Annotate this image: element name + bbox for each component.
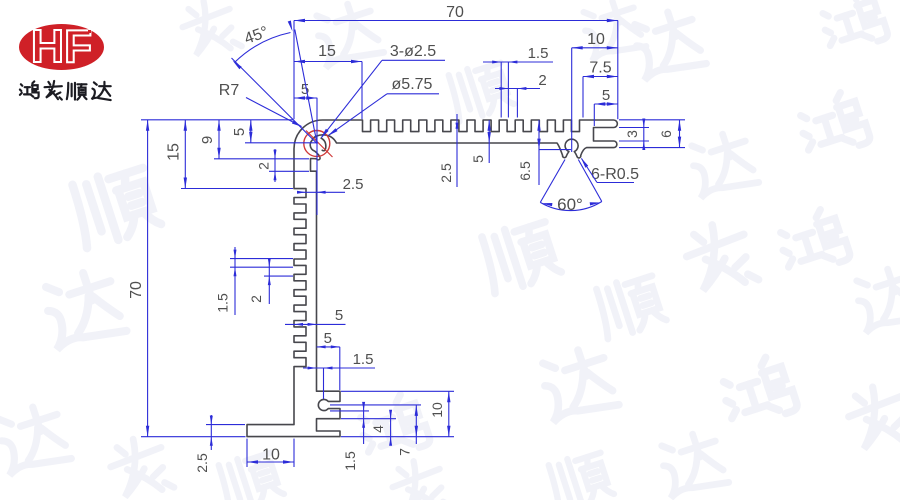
o5.75 leader	[329, 94, 388, 136]
svg-text:5: 5	[324, 330, 332, 347]
ext y424.6	[206, 424, 245, 426]
red 45deg centerline	[306, 131, 333, 158]
ext y142.8	[245, 142, 318, 144]
45deg arc	[235, 33, 291, 63]
svg-text:7.5: 7.5	[589, 60, 611, 77]
dim 6 line	[679, 120, 681, 148]
o5.75 underline	[387, 93, 439, 95]
svg-text:1.5: 1.5	[528, 45, 549, 62]
dim 70 left line	[147, 120, 149, 437]
ext x594	[593, 104, 595, 126]
dim 4 line	[390, 411, 392, 444]
svg-text:10: 10	[262, 447, 280, 464]
dim 1.5 br line	[363, 404, 365, 444]
ext y436.7 right	[341, 436, 454, 438]
R7 leader	[246, 98, 302, 127]
ext x517	[516, 89, 518, 118]
6-R0.5 underline	[597, 182, 634, 184]
ext y258.6	[230, 258, 293, 260]
60deg arc	[540, 202, 602, 211]
svg-text:1.5: 1.5	[215, 293, 231, 313]
3-o2.5 underline	[382, 59, 445, 61]
svg-text:45°: 45°	[242, 24, 271, 48]
ext y418.7	[341, 418, 396, 420]
ext y171.3	[269, 170, 309, 172]
dim 7 line	[415, 405, 417, 444]
ext y436.7 left	[141, 436, 246, 438]
45 line b	[295, 30, 317, 144]
dim 1.5 ho line	[303, 367, 375, 369]
svg-text:HF: HF	[31, 20, 92, 72]
dim 5 left line	[250, 120, 252, 143]
svg-text:5: 5	[335, 307, 343, 324]
ext y147.6 r	[619, 147, 685, 149]
ext y267.2	[230, 266, 293, 268]
keyhole upper lip inner edge	[321, 138, 326, 151]
svg-text:6-R0.5: 6-R0.5	[591, 166, 639, 183]
svg-text:R7: R7	[219, 82, 240, 99]
dim 5 tab line	[317, 346, 340, 348]
ext y410.9	[330, 410, 369, 412]
svg-text:10: 10	[429, 402, 445, 418]
dim 5 tr line	[594, 103, 618, 105]
3-o2.5 leader	[322, 60, 383, 137]
svg-text:2.5: 2.5	[343, 176, 364, 193]
ext y188.5	[181, 188, 293, 190]
svg-text:2.5: 2.5	[438, 163, 454, 183]
svg-text:2.5: 2.5	[194, 453, 210, 473]
45 line a	[232, 58, 318, 144]
dim 2 top line	[495, 88, 540, 90]
ext y119.8 r	[619, 119, 685, 121]
svg-text:5: 5	[231, 128, 248, 136]
ext line x294	[293, 21, 295, 120]
dim 2 corner line	[274, 149, 276, 182]
ext y127.5	[619, 127, 649, 129]
ext x323.5	[323, 368, 325, 399]
svg-text:2: 2	[256, 162, 272, 170]
svg-text:4: 4	[370, 425, 386, 433]
svg-text:9: 9	[199, 136, 216, 144]
dim 9 line	[218, 120, 220, 159]
dim 5 top-left line	[294, 97, 317, 99]
ext y276.1	[264, 275, 293, 277]
heatsink profile outline	[247, 120, 617, 437]
ext x501	[500, 62, 502, 118]
dim 2.5 fin line	[456, 114, 458, 187]
logo chinese text	[20, 81, 39, 98]
6-R0.5 leader	[582, 159, 598, 183]
svg-text:60°: 60°	[557, 195, 583, 214]
svg-text:2: 2	[248, 295, 264, 303]
ext x583	[582, 77, 584, 118]
red construction circle o5.75	[304, 131, 330, 157]
svg-text:15: 15	[318, 43, 336, 60]
svg-text:5: 5	[602, 87, 610, 104]
dim 15 left line	[184, 120, 186, 189]
ext y391.3	[341, 390, 454, 392]
ext line x618	[617, 21, 619, 120]
dim 2.5 wall line	[298, 191, 345, 193]
dim 70 top line	[294, 20, 618, 22]
svg-text:ø5.75: ø5.75	[392, 76, 433, 93]
svg-text:3-ø2.5: 3-ø2.5	[390, 43, 436, 60]
dim 7.5 line	[583, 76, 618, 78]
ext x294 low	[293, 439, 295, 467]
svg-text:6.5: 6.5	[517, 161, 533, 181]
svg-text:3: 3	[624, 130, 640, 138]
svg-text:7: 7	[397, 448, 413, 456]
ext y141	[619, 140, 649, 142]
dim 15 line	[294, 61, 362, 63]
svg-text:5: 5	[470, 155, 486, 163]
ext x508	[507, 62, 509, 118]
ext line x362	[361, 62, 363, 120]
dim 1.5 lf line	[234, 247, 236, 315]
60deg cone lines	[540, 160, 565, 203]
dim 10 tr line	[572, 47, 618, 49]
dim 6.5 line	[538, 120, 540, 185]
logo ellipse HF	[19, 24, 104, 70]
svg-text:1.5: 1.5	[353, 351, 374, 368]
ext x247	[246, 439, 248, 467]
svg-text:6: 6	[658, 130, 674, 138]
svg-text:70: 70	[128, 281, 145, 299]
svg-text:10: 10	[587, 31, 605, 48]
dim 10 br line	[448, 391, 450, 436]
dim 2 lf line	[268, 258, 270, 304]
svg-text:2: 2	[538, 72, 546, 89]
dim 5 ww line	[285, 323, 346, 325]
dim 10 foot line	[247, 461, 294, 463]
ext y404.9	[330, 404, 421, 406]
ext x339.8	[339, 347, 341, 390]
ext port center y	[539, 149, 571, 151]
ext/centerline x317 through keyhole	[316, 98, 318, 215]
dim 1.5 top line	[483, 61, 553, 63]
ext y119.8 left	[141, 119, 293, 121]
dim 2.5 foot line	[210, 415, 212, 450]
ext y158.8	[214, 158, 309, 160]
svg-text:70: 70	[446, 4, 464, 21]
svg-text:15: 15	[166, 143, 183, 161]
dim 3 line	[643, 120, 645, 149]
svg-text:1.5: 1.5	[342, 451, 358, 471]
ext x571.7 to port	[571, 48, 573, 152]
dim 5 mid line	[488, 120, 490, 163]
